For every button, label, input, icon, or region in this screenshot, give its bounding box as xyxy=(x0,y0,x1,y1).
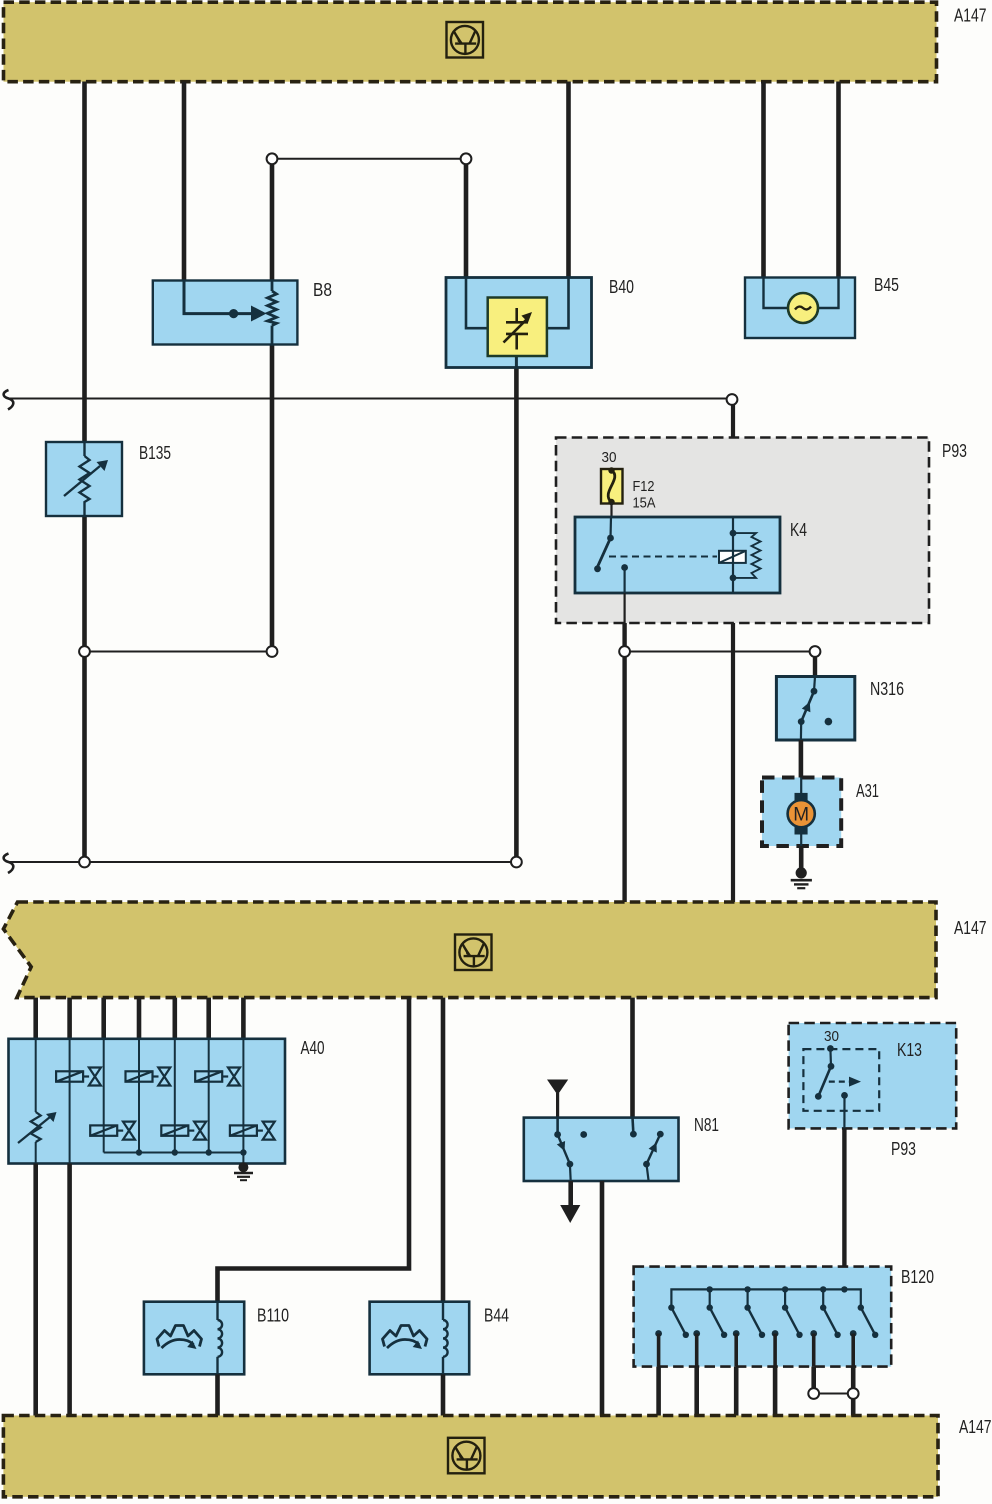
vertical wire through relay xyxy=(732,517,734,593)
wire K13 to B120 xyxy=(842,1128,846,1289)
ECU symbol (bottom band) xyxy=(448,1438,485,1474)
dashed control-unit box P93 (gray) xyxy=(556,438,967,624)
solenoid valve 3 (A40) xyxy=(195,1068,240,1086)
solenoid valve 4 (A40) xyxy=(90,1122,135,1140)
thermistor B135 xyxy=(46,442,171,516)
wire B120 pin 6 to link xyxy=(851,1367,856,1389)
junction ring at B8 branch xyxy=(267,153,278,164)
svg-text:B44: B44 xyxy=(484,1306,509,1326)
variable resistor xyxy=(31,1112,41,1142)
wire N81 down to band xyxy=(600,1181,605,1416)
sensor B45 xyxy=(745,275,899,338)
wire node bridge B8-B40 top link xyxy=(272,158,466,160)
junction ring at N316 branch xyxy=(810,646,821,657)
junction ring at B40 branch xyxy=(461,153,472,164)
A40 ground xyxy=(234,1162,253,1180)
svg-text:N81: N81 xyxy=(694,1115,719,1135)
ground xyxy=(791,867,812,888)
horizontal wire y=398.5 with break xyxy=(4,390,732,410)
wire K4 output down (x=624) xyxy=(623,593,625,623)
svg-text:B120: B120 xyxy=(901,1267,934,1287)
solenoid valve 5 (A40) xyxy=(161,1122,206,1140)
switch pack B120 xyxy=(634,1267,934,1367)
wire band to A40 pin 1 xyxy=(33,998,38,1039)
connector band A147 (top) xyxy=(4,2,987,82)
junction ring below K4 xyxy=(619,646,630,657)
switch xyxy=(609,517,612,538)
wire B8 wiper feed xyxy=(184,281,252,314)
fuse F12 15A xyxy=(601,449,656,517)
solenoid valve 1 (A40) xyxy=(56,1068,101,1086)
junction ring B120 pin 6 xyxy=(848,1388,859,1399)
svg-text:30: 30 xyxy=(602,449,617,466)
svg-text:K4: K4 xyxy=(790,520,807,540)
svg-text:B135: B135 xyxy=(139,443,171,463)
wire N316 to A31 xyxy=(799,740,804,778)
wire from y=398 junction down through P93 (x=733) xyxy=(731,399,735,518)
impeller icon xyxy=(157,1326,202,1350)
junction ring below B8 xyxy=(267,646,278,657)
link junction to N316 branch xyxy=(625,651,815,653)
switch N316 xyxy=(776,677,904,741)
wire B120 pin 1 to band xyxy=(656,1367,661,1416)
svg-text:M: M xyxy=(793,805,809,826)
svg-text:P93: P93 xyxy=(891,1139,916,1159)
wire to N316 xyxy=(813,652,817,677)
wire band to N81 xyxy=(630,998,635,1134)
svg-text:15A: 15A xyxy=(633,495,656,512)
wire from band to B135 / junctions (x=84.5) xyxy=(82,82,87,652)
svg-text:P93: P93 xyxy=(942,441,967,461)
coil diagonal xyxy=(719,551,746,563)
link between B120 outputs xyxy=(814,1393,854,1395)
ECU symbol (middle band) xyxy=(455,935,492,971)
wire from link to B40 left (x=466) xyxy=(464,159,469,278)
svg-text:A31: A31 xyxy=(856,781,879,801)
variable capacitor symbol xyxy=(515,308,518,322)
resistor track B8 xyxy=(271,281,274,292)
junction ring below B40 xyxy=(511,857,522,868)
wire xyxy=(82,652,87,863)
svg-text:A40: A40 xyxy=(301,1038,325,1058)
sensor B40 xyxy=(446,277,634,368)
wire from band to B45 left xyxy=(761,82,766,279)
relay K4 xyxy=(575,517,807,593)
wire band to B110 (bent) xyxy=(218,998,410,1302)
ECU symbol (top band) xyxy=(447,22,484,58)
junction ring lower B135 wire xyxy=(79,857,90,868)
dashed actuation line xyxy=(609,556,717,558)
terminal wires B120 xyxy=(659,1334,854,1367)
wires below A40 xyxy=(33,1164,38,1417)
wire B120 pin 2 to band xyxy=(694,1367,699,1416)
bus wire B120 xyxy=(671,1289,860,1307)
arrow B8 wiper xyxy=(251,306,267,322)
solenoid valve 2 (A40) xyxy=(126,1068,171,1086)
svg-text:B45: B45 xyxy=(874,275,899,295)
wire from band to B45 right xyxy=(836,82,841,279)
node B8 wiper dot xyxy=(229,309,238,318)
wire link to band xyxy=(851,1399,856,1417)
interior vertical wires xyxy=(36,1039,244,1166)
svg-text:B40: B40 xyxy=(609,277,634,297)
solenoid valve 6 (A40) xyxy=(230,1122,275,1140)
AC generator element B45 xyxy=(788,293,818,323)
wire band to A40 pin 7 xyxy=(241,998,246,1039)
wire B120 pin 5 to link xyxy=(811,1367,816,1389)
svg-text:B8: B8 xyxy=(313,280,332,300)
wire A31 to ground xyxy=(799,846,804,871)
relay K13 in P93 xyxy=(789,1023,957,1159)
wire band to A40 pin 5 xyxy=(173,998,178,1039)
wire band to A40 pin 2 xyxy=(67,998,72,1039)
svg-text:A147: A147 xyxy=(954,6,987,26)
heater/sensor B44 xyxy=(370,1302,509,1375)
junction ring on B135 wire xyxy=(79,646,90,657)
svg-text:F12: F12 xyxy=(633,478,655,495)
hydraulic modulator A40 xyxy=(9,1038,325,1166)
wire from link to B8 resistor (x=272) xyxy=(270,159,275,281)
sensing element B40 (variable capacitor) xyxy=(488,298,547,357)
wire band to B44 xyxy=(441,998,446,1302)
wire B120 pin 4 to band xyxy=(773,1367,778,1416)
svg-text:N316: N316 xyxy=(870,679,904,699)
horizontal wire y=862 with break xyxy=(4,854,517,874)
wire band to A40 pin 6 xyxy=(206,998,211,1039)
svg-text:A147: A147 xyxy=(959,1417,992,1437)
svg-text:K13: K13 xyxy=(897,1040,922,1060)
solenoid valves in A40 xyxy=(56,1068,275,1140)
coil body xyxy=(719,551,746,563)
antenna above N81 xyxy=(547,1080,568,1119)
junction ring B120 pin 5 xyxy=(808,1388,819,1399)
arrow below N81 xyxy=(560,1181,580,1223)
junction ring at P93 feed xyxy=(727,394,738,405)
svg-text:30: 30 xyxy=(824,1028,839,1045)
wire B8 resistor down to junction xyxy=(270,344,275,652)
wire B120 pin 3 to band xyxy=(734,1367,739,1416)
switch unit N81 xyxy=(524,1115,719,1181)
wire band to A40 pin 4 xyxy=(137,998,142,1039)
wire B40 bottom down (x=516.4) xyxy=(514,367,519,862)
connector band A147 (middle, notched) xyxy=(3,902,986,998)
wire band to A40 pin 3 xyxy=(101,998,106,1039)
switch arms B120 (6 contacts) xyxy=(671,1308,875,1335)
link wire y=651.5 left xyxy=(85,651,273,653)
motor assembly A31 xyxy=(762,778,879,847)
sensor B8 xyxy=(153,280,332,345)
svg-text:B110: B110 xyxy=(257,1306,289,1326)
wire from band to B8 (x=184) xyxy=(182,82,187,282)
wire from band to B40 right (x=568.5) xyxy=(566,82,571,279)
connector band A147 (bottom) xyxy=(3,1416,991,1497)
ground bus xyxy=(104,1152,244,1154)
wire fuse to K4 xyxy=(610,503,612,518)
heater/sensor B110 xyxy=(144,1302,289,1375)
svg-text:A147: A147 xyxy=(954,918,987,938)
